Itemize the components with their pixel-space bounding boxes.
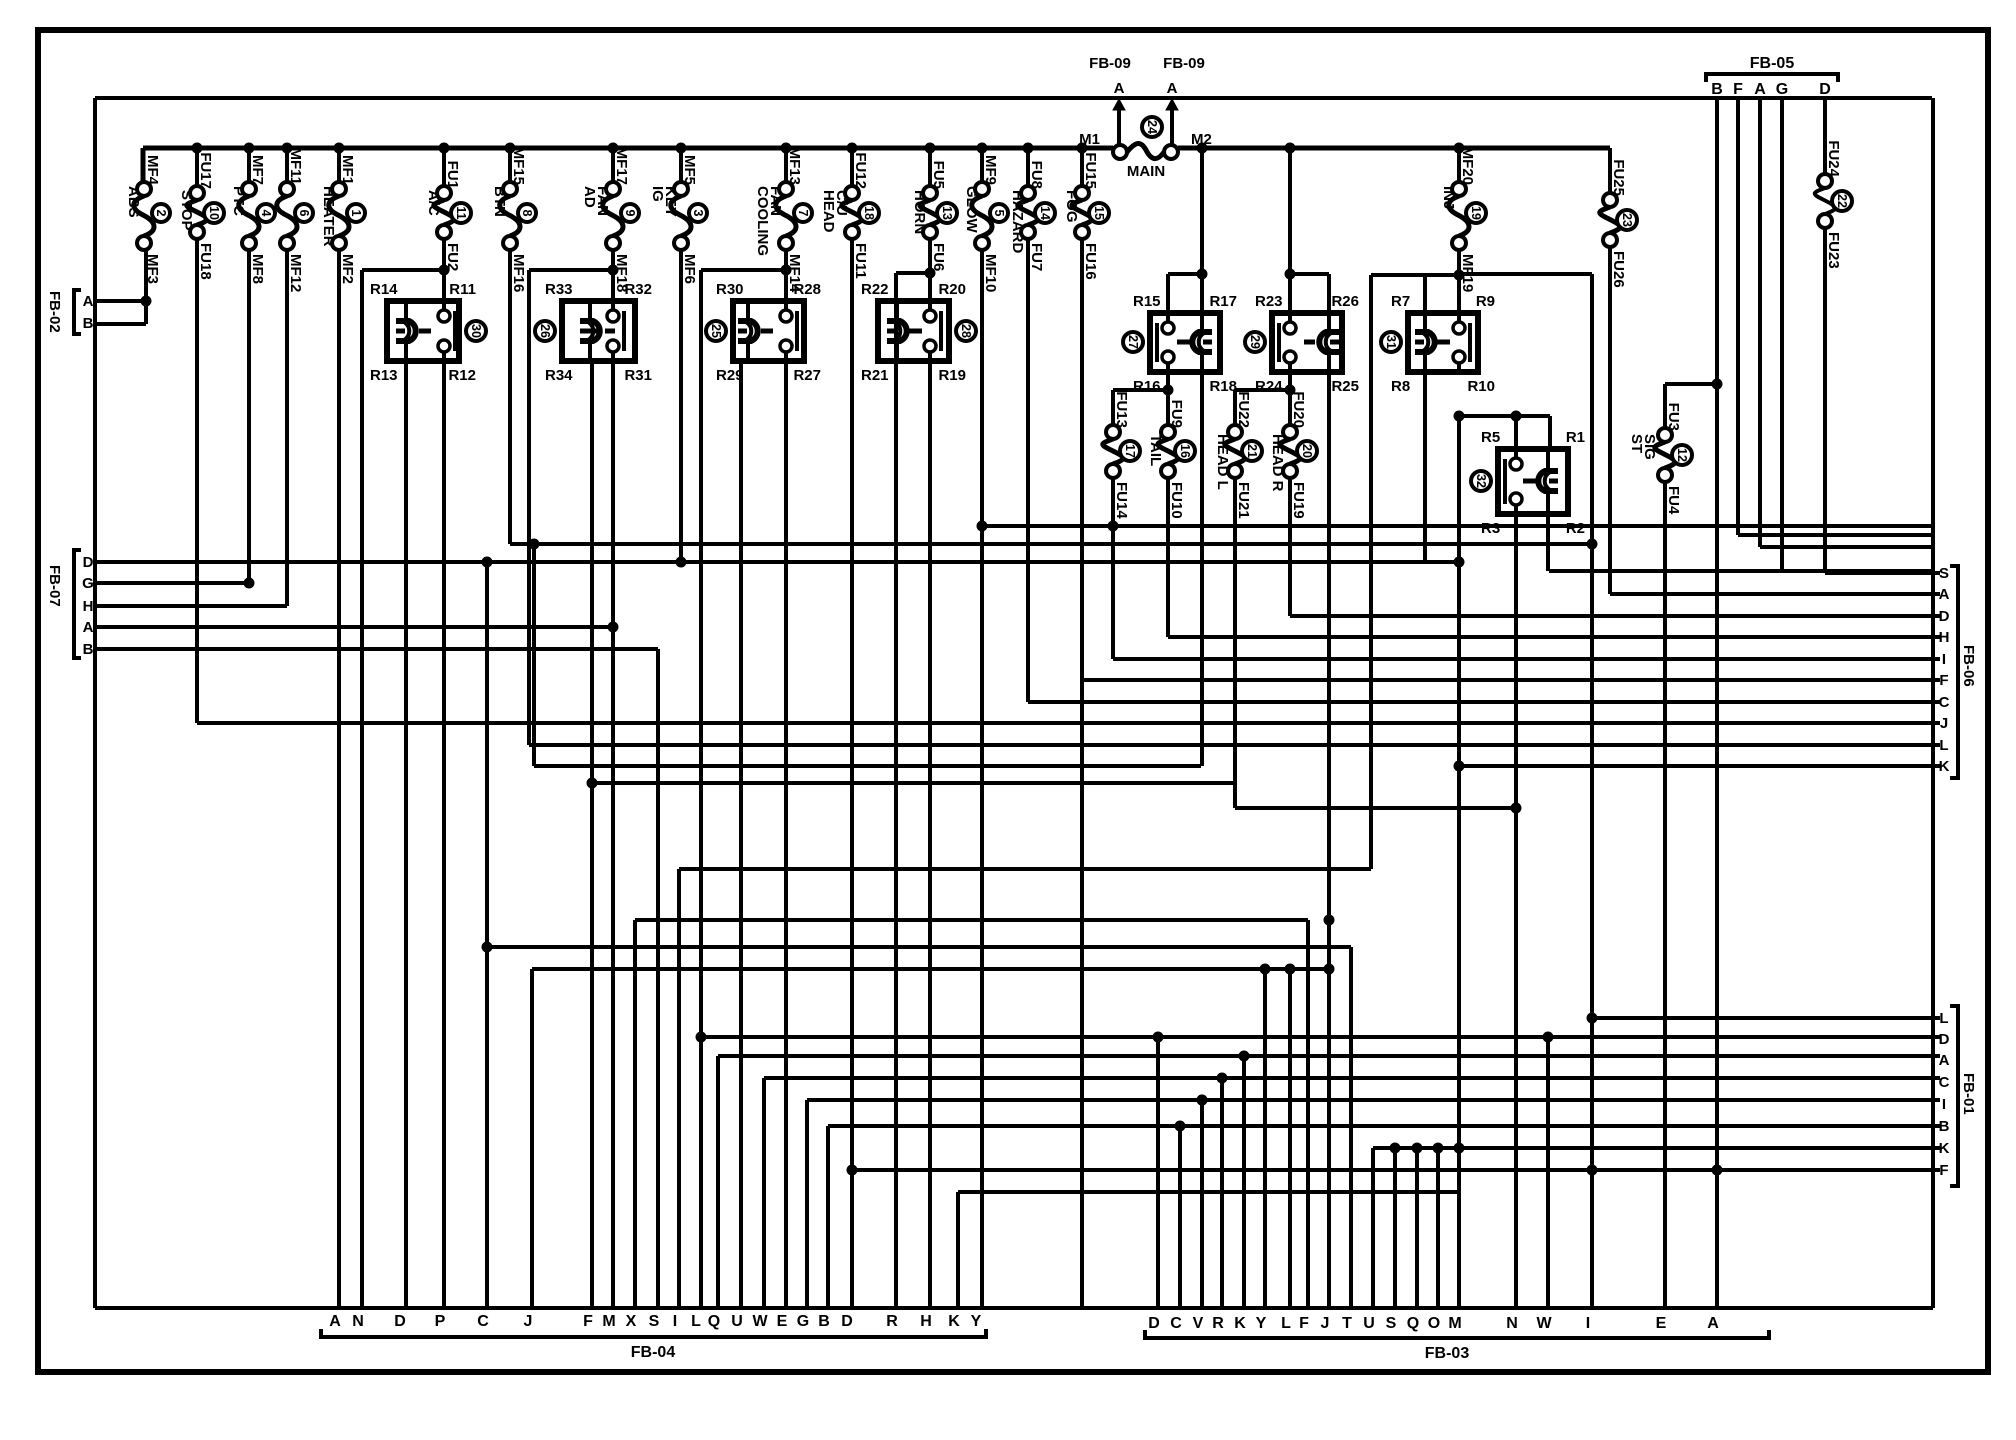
svg-text:16: 16 [1178,444,1192,458]
wire FB-05 D down through FU24/FU23 to FB-06 S [1823,98,1827,174]
junction bus x=930 [925,143,935,153]
svg-text:C: C [1170,1315,1182,1332]
junction bus x=1202 [1197,143,1207,153]
svg-text:L: L [1939,737,1948,754]
svg-text:B: B [1939,1118,1950,1135]
svg-text:R14: R14 [370,281,398,298]
svg-text:R31: R31 [624,367,652,384]
svg-text:M2: M2 [1191,131,1212,148]
wire staircase FB-04 I [677,869,681,1308]
svg-text:L: L [691,1313,701,1330]
svg-text:FU18: FU18 [197,243,214,280]
svg-text:D: D [841,1313,853,1330]
svg-text:27: 27 [1126,335,1140,349]
wire FB-07 D to R7 coil (x=1425) [97,560,1459,564]
svg-text:C: C [1939,694,1950,711]
wire FB-03 D drop [1156,1037,1160,1308]
wire bus2 top horizontal [95,96,1932,100]
svg-text:R1: R1 [1566,429,1585,446]
wire y=571 line from R2 coil to right leg [1549,569,1933,573]
svg-text:J: J [524,1313,533,1330]
wire FU4 down to FB-03 E [1663,482,1667,1308]
wire bypass to FB-04 L / comb [699,270,703,1308]
wire R24 down to HEAD group [1288,372,1292,425]
svg-text:FU10: FU10 [1168,482,1185,519]
wire R25 coil column down to FB-03 J [1327,372,1331,1308]
svg-text:C: C [477,1313,489,1330]
svg-text:U: U [1363,1315,1375,1332]
junction bus x=681 [676,143,686,153]
svg-text:B: B [818,1313,830,1330]
svg-text:R15: R15 [1133,293,1161,310]
wire R13 coil down to FB-04 D [404,361,408,1308]
svg-text:30: 30 [469,324,483,338]
svg-text:TAIL: TAIL [1147,434,1164,466]
svg-text:K: K [1939,1140,1950,1157]
svg-text:HORN: HORN [911,190,928,234]
junction bus x=852 [847,143,857,153]
svg-text:F: F [583,1313,593,1330]
svg-text:24: 24 [1145,120,1159,134]
svg-text:H: H [920,1313,932,1330]
svg-text:MF6: MF6 [681,254,698,284]
svg-text:R5: R5 [1481,429,1500,446]
junction bus x=982 [977,143,987,153]
fuse FU3/FU4 ST SIG [1663,384,1667,428]
svg-text:MAIN: MAIN [1127,163,1165,180]
svg-text:MF5: MF5 [681,155,698,185]
svg-text:FU24: FU24 [1825,140,1842,177]
wire FB-03 R drop [1220,1078,1224,1308]
wire FB-06 A from FU26 [1608,247,1612,594]
svg-text:FU1: FU1 [444,161,461,189]
wire FB-03 U drop [1371,1148,1375,1308]
svg-text:MF16: MF16 [510,254,527,292]
fuse FU15/FU16 FOG [1080,148,1084,186]
svg-text:FU8: FU8 [1028,161,1045,189]
svg-text:7: 7 [796,210,810,217]
svg-text:O: O [1428,1315,1440,1332]
svg-text:M: M [602,1313,615,1330]
wire FB-06 D from HEAD R FU19 [1288,478,1292,616]
junction bus x=249 [244,143,254,153]
fuse MF1/MF2 HEATER [337,148,341,182]
wire R16 down to TAIL group [1166,372,1170,425]
relay K2 (R33/R32/R34/R31) [562,301,635,361]
svg-text:B: B [83,641,94,658]
svg-text:HAZARD: HAZARD [1009,190,1026,253]
svg-text:A: A [1939,1052,1950,1069]
svg-text:A: A [83,619,94,636]
arrow FB-09 A left [1113,99,1125,110]
wire MF2 down to FB-04 A [337,250,341,1308]
fuse MAIN (M1/M2) [1113,145,1127,159]
svg-text:FU12: FU12 [852,152,869,189]
wire FB-03 V drop from staircase [1200,1100,1204,1308]
fuse FU12/FU11 HEAD C/U [850,148,854,186]
connector FB-04 [321,1329,986,1337]
fuse FU5/FU6 HORN [928,148,932,186]
svg-text:I: I [1586,1315,1590,1332]
svg-text:B: B [1711,81,1723,98]
svg-text:S: S [1386,1315,1397,1332]
wire HEAD L FU21 corner to R3 column [1233,478,1237,808]
wire FB-05 B down (ST SIG feed, FB-03 A) [1715,98,1719,1308]
wire R18 coil column down to FB-06 K corner [1200,372,1204,766]
svg-text:A: A [1939,586,1950,603]
wire A/C to relay R11 + bypass [442,239,446,301]
relay K5 (R15/R17/R16/R18) [1150,313,1220,372]
wire R19 down to FB-04 H [928,361,932,1308]
junction bus x=786 [781,143,791,153]
svg-text:GLOW: GLOW [963,186,980,233]
wire bypass to FB-04 N [360,270,364,1308]
svg-text:MF13: MF13 [786,147,803,185]
svg-text:R21: R21 [861,367,889,384]
svg-text:FU16: FU16 [1082,243,1099,280]
svg-text:FU20: FU20 [1290,391,1307,428]
svg-text:D: D [1939,608,1950,625]
wire FB-06 I from FU14 [1111,478,1115,659]
svg-text:Q: Q [708,1313,720,1330]
svg-text:R28: R28 [793,281,821,298]
svg-text:G: G [82,575,94,592]
svg-text:F: F [1939,672,1948,689]
svg-text:1: 1 [349,210,363,217]
svg-text:R13: R13 [370,367,398,384]
svg-text:FU14: FU14 [1113,482,1130,519]
svg-text:G: G [797,1313,809,1330]
svg-text:A: A [83,293,94,310]
svg-text:INJ: INJ [1440,186,1457,209]
wire main bus [143,146,1113,151]
svg-text:20: 20 [1300,444,1314,458]
junction bus x=1028 [1023,143,1033,153]
relay K7 (R7/R9/R8/R10) [1408,313,1478,372]
wire FB-06 K left segment from BTN tap to R18 coil column [532,544,536,766]
svg-text:13: 13 [940,206,954,220]
svg-text:MF17: MF17 [613,147,630,185]
wire FB-03 Y drop [1263,969,1267,1308]
svg-text:J: J [1321,1315,1330,1332]
svg-text:R23: R23 [1255,293,1283,310]
wire staircase y=1170 to FB-05 B column [852,1168,1717,1172]
svg-text:R25: R25 [1331,378,1359,395]
svg-text:HEAD R: HEAD R [1269,434,1286,492]
fuse MF13/MF14 COOLING FAN [784,148,788,182]
wire FB-03 K drop [1242,1056,1246,1308]
wire R27 down to FB-04 E [784,361,788,1308]
svg-text:R7: R7 [1391,293,1410,310]
svg-text:FAN: FAN [594,186,611,216]
svg-text:FU3: FU3 [1665,403,1682,431]
wire BTN MF16 corner right at y=544 [508,250,512,544]
svg-text:M: M [1448,1315,1461,1332]
connector FB-02 [74,290,81,334]
wire FOG FU16 down to comb [1080,239,1084,1308]
fuse FU20/FU19 HEAD R [1283,425,1297,439]
svg-text:MF15: MF15 [510,147,527,185]
wire staircase FB-04 J to FB-03 J column [530,969,534,1308]
svg-text:FB-01: FB-01 [1960,1073,1977,1115]
wire staircase FB-04 W to FB-01 C [762,1078,766,1308]
svg-text:FB-09: FB-09 [1163,55,1205,72]
wire staircase FB-04 G to FB-01 I [805,1100,809,1308]
fuse FU1/FU2 A/C [442,148,446,186]
svg-text:26: 26 [538,324,552,338]
wire FB-03 O drop [1436,1148,1440,1308]
wire FB-02 B [97,322,146,326]
svg-text:9: 9 [623,210,637,217]
svg-text:R12: R12 [448,367,476,384]
fuse FU8/FU7 HAZARD [1026,148,1030,186]
svg-text:FB-06: FB-06 [1960,645,1977,687]
svg-text:MF9: MF9 [982,155,999,185]
svg-text:R10: R10 [1467,378,1495,395]
svg-text:FU6: FU6 [930,243,947,271]
wire AD FAN to relay R32 + bypass [611,250,615,307]
wire bus drop to relay R23/R26 [1288,148,1292,313]
svg-text:5: 5 [992,210,1006,217]
svg-text:MF1: MF1 [339,155,356,185]
svg-text:R: R [1212,1315,1224,1332]
svg-text:R33: R33 [545,281,573,298]
relay K6 (R23/R26/R24/R25) [1272,313,1342,372]
relay K8 (R5/R1/R3/R2) [1498,449,1568,514]
wire INJ/R9 column down to FB-03 M [1457,416,1461,1308]
svg-text:HEATER: HEATER [320,186,337,247]
wire staircase FB-04 B to FB-01 B [826,1126,830,1308]
svg-text:KEY: KEY [662,186,679,217]
svg-text:B: B [83,315,94,332]
svg-text:A: A [1707,1315,1719,1332]
svg-text:M1: M1 [1079,131,1100,148]
svg-text:FU9: FU9 [1168,400,1185,428]
svg-text:H: H [1939,629,1950,646]
wire bus2 left leg [93,98,97,1308]
svg-text:I: I [673,1313,677,1330]
wire FB-03 T drop [1349,947,1353,1308]
wire staircase FB-04 C to FB-03 U [485,562,489,1308]
svg-text:R30: R30 [716,281,744,298]
relay K1 (R14/R11/R13/R12) [387,301,459,361]
wire FB-01 L from x=1592 [1592,1016,1940,1020]
fuse FU25/FU26 [1603,193,1617,207]
svg-text:FB-03: FB-03 [1425,1345,1470,1362]
svg-text:FB-05: FB-05 [1750,55,1795,72]
svg-text:8: 8 [520,210,534,217]
svg-text:2: 2 [154,210,168,217]
junction bus x=197 [192,143,202,153]
svg-text:A: A [1114,80,1125,97]
svg-text:FU25: FU25 [1610,159,1627,196]
wire R29 coil down to FB-04 U [739,361,743,1308]
wire HEAD C/U FU11 down to FB-04 D2 [850,239,854,1308]
wire feed to R5/R1 from INJ vertical [1459,414,1550,418]
wire bus left end drop to ABS fuse [141,148,146,184]
wire FB-05 G down to 571 line [1780,98,1784,571]
wire HORN to relay R20 + bypass [928,239,932,307]
junction bus x=287 [282,143,292,153]
svg-text:A: A [1167,80,1178,97]
svg-text:PTC: PTC [230,186,247,216]
svg-text:F: F [1733,81,1743,98]
svg-text:17: 17 [1123,444,1137,458]
svg-text:31: 31 [1384,335,1398,349]
svg-text:FU19: FU19 [1290,482,1307,519]
svg-text:H: H [83,598,94,615]
fuse FU13/FU14 TAIL-L [1106,425,1120,439]
svg-text:28: 28 [959,324,973,338]
svg-text:FU26: FU26 [1610,251,1627,288]
wire M2 drop to relay R15/R17 [1200,148,1204,313]
svg-text:S: S [649,1313,660,1330]
svg-text:FU21: FU21 [1235,482,1252,519]
svg-text:32: 32 [1474,474,1488,488]
svg-text:R32: R32 [624,281,652,298]
svg-text:C: C [1939,1074,1950,1091]
relay K4 (R22/R20/R21/R19) [878,301,949,361]
wire y=526 cross line [982,524,1933,528]
wire R31 down to FB-04 M [611,361,615,1308]
svg-text:MF20: MF20 [1459,147,1476,185]
svg-text:STOP: STOP [178,190,195,231]
junction bus x=1459 [1454,143,1464,153]
svg-text:R20: R20 [938,281,966,298]
wire COOLING FAN to relay R28 + bypass [784,250,788,307]
wire x=1592 from relay feed line down to FB-03 I [1459,272,1592,276]
fuse MF15/MF16 BTN [508,148,512,182]
svg-text:I: I [1942,1096,1946,1113]
svg-text:14: 14 [1038,206,1052,220]
svg-text:FB-04: FB-04 [631,1344,676,1361]
svg-text:MF4: MF4 [144,155,161,186]
connector FB-07 [74,550,81,658]
wire R12 down to FB-04 P [442,361,446,1308]
wire comb bottom (FB-04/FB-03 header line) [95,1306,1933,1310]
junction bus x=444 [439,143,449,153]
wire FB-03 S drop [1393,1148,1397,1308]
svg-text:19: 19 [1469,206,1483,220]
wire R3 down to FB-03 N [1514,514,1518,1308]
svg-text:P: P [435,1313,446,1330]
svg-text:15: 15 [1092,206,1106,220]
svg-text:FB-09: FB-09 [1089,55,1131,72]
wire staircase FB-04 K [956,1192,960,1308]
svg-text:FB-07: FB-07 [46,565,63,607]
svg-text:R11: R11 [449,281,476,298]
svg-text:29: 29 [1248,335,1262,349]
fuse MF11/MF12 MF11 [285,148,289,182]
wire FB-02 A [97,299,146,303]
wire FB-05 A down, corner right at 547 [1758,98,1762,547]
svg-text:FU7: FU7 [1028,243,1045,271]
wire staircase FB-04 Q to FB-01 A [716,1056,720,1308]
wire FB-06 L from R32 bypass [529,743,1940,747]
wire staircase line to FB-01 D [701,1035,1940,1039]
svg-text:R18: R18 [1209,378,1237,395]
svg-text:HEAD L: HEAD L [1214,434,1231,490]
wire FB-03 Q drop [1415,1148,1419,1308]
svg-text:FU23: FU23 [1825,232,1842,269]
connector FB-03 [1145,1330,1769,1338]
svg-text:D: D [394,1313,406,1330]
wire FB-03 F drop [1306,920,1310,1308]
svg-text:T: T [1342,1315,1352,1332]
svg-text:L: L [1939,1010,1948,1027]
svg-text:BTN: BTN [491,186,508,217]
svg-text:A: A [329,1313,341,1330]
junction bus x=613 [608,143,618,153]
wire FB-05 F down, corner right at 535 [1736,98,1740,535]
svg-text:MF8: MF8 [249,254,266,284]
svg-text:K: K [1939,758,1950,775]
svg-text:FU11: FU11 [852,243,869,279]
svg-text:Q: Q [1407,1315,1419,1332]
wire FB-06 J from STOP FU18 [195,239,199,723]
fuse MF9/MF10 GLOW [980,148,984,182]
svg-text:R16: R16 [1133,378,1161,395]
svg-text:R17: R17 [1209,293,1237,310]
svg-text:R8: R8 [1391,378,1410,395]
junction bus x=1082 [1077,143,1087,153]
wire GLOW MF10 down to FB-04 Y [980,250,984,1308]
svg-text:A: A [1754,81,1766,98]
fuse FU9/FU10 TAIL [1161,425,1175,439]
svg-text:R24: R24 [1255,378,1283,395]
svg-text:N: N [352,1313,364,1330]
svg-text:A/C: A/C [425,190,442,216]
junction bus x=339 [334,143,344,153]
svg-text:K: K [948,1313,960,1330]
wire y=783 from R34 coil column to FU21 column [592,781,1235,785]
svg-text:E: E [1656,1315,1667,1332]
fuse MF4/MF3 ABS [137,182,151,196]
svg-text:SIG: SIG [1641,434,1658,460]
svg-text:C/U: C/U [833,190,850,216]
svg-text:6: 6 [297,210,311,217]
svg-text:Y: Y [971,1313,982,1330]
relay K3 (R30/R28/R29/R27) [733,301,804,361]
svg-text:S: S [1939,565,1949,582]
wire R2 coil down to 571 line [1546,514,1550,571]
svg-text:FU4: FU4 [1665,486,1682,515]
svg-text:4: 4 [259,210,273,217]
svg-text:R: R [886,1313,898,1330]
svg-text:MF2: MF2 [339,254,356,284]
svg-text:R9: R9 [1476,293,1495,310]
svg-text:D: D [1148,1315,1160,1332]
svg-text:FAN: FAN [767,186,784,216]
wire bus2 right leg [1931,98,1935,1308]
svg-text:L: L [1281,1315,1291,1332]
wire bypass x=1371 down to staircase corner y=869 [1369,275,1373,869]
fuse MF20/MF19 INJ [1457,148,1461,182]
svg-text:V: V [1193,1315,1204,1332]
svg-text:R19: R19 [938,367,966,384]
svg-text:R27: R27 [793,367,821,384]
svg-text:10: 10 [207,206,221,220]
svg-text:X: X [626,1313,637,1330]
wire FB-03 W drop [1546,1037,1550,1308]
svg-text:K: K [1234,1315,1246,1332]
svg-text:R34: R34 [545,367,573,384]
wire R34 coil down to FB-04 F [590,361,594,1308]
svg-text:FOG: FOG [1063,190,1080,223]
wire FB-07 H to MF12 [97,604,287,608]
svg-text:R2: R2 [1566,520,1585,537]
wire FB-06 H from TAIL FU10 [1166,478,1170,637]
